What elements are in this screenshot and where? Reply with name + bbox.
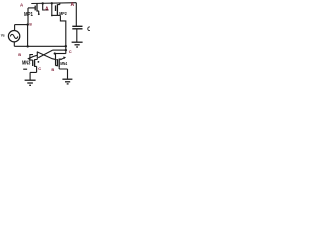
wire MN4 gate vertical [56, 54, 58, 66]
svg-text:B: B [18, 52, 21, 57]
arrowhead MN4 arrow [63, 57, 66, 60]
wire MP2 rail drop [51, 3, 53, 15]
transistor MP2 gate bar [55, 5, 57, 11]
wire MN4 drain lead [59, 58, 62, 60]
transistor MN4 channel bar [58, 59, 60, 68]
ground (middle, under MN4) [62, 79, 72, 84]
junction dot node B bottom [27, 45, 29, 47]
transistor MP1 source stub [37, 11, 39, 14]
transistor MP1 gate bar [34, 6, 36, 11]
ground (left, under MN3) [25, 80, 36, 85]
wire capacitor lower lead [76, 29, 78, 42]
junction dot node A line2 [65, 49, 67, 51]
svg-text:A: A [45, 6, 49, 12]
junction dot wire y15.4 [51, 15, 53, 17]
junction dot MP1 source [38, 13, 40, 15]
wire line2 [53, 49, 66, 51]
svg-text:A: A [71, 2, 75, 8]
wire MN3 source to ground [30, 72, 36, 80]
AC source V1 circle [8, 31, 19, 42]
wire diagonal A (cross-couple down) [37, 52, 57, 60]
dash mark under MN3 label [23, 68, 27, 70]
transistor MN4 gate bar [56, 59, 58, 66]
wire source top horizontal [15, 24, 29, 26]
circuit schematic: cross-coupled rectifier [0, 0, 90, 90]
svg-text:Vs: Vs [1, 34, 5, 38]
junction dot MN3 right [38, 61, 40, 63]
junction dot rail 1 [42, 2, 44, 4]
wire diagonal B (cross-couple up) [38, 50, 52, 58]
capacitor C1 top plate [72, 25, 82, 27]
junction dot node B top [27, 23, 29, 25]
wire L from rail dot to node A label [43, 3, 49, 10]
junction dot line3 left [54, 52, 56, 54]
transistor MP1 channel bar [36, 4, 38, 12]
svg-text:MN3: MN3 [22, 60, 31, 66]
wire MP2 staircase to node A vertical [60, 15, 65, 53]
wire right drop to capacitor [75, 3, 77, 26]
wire MN4 source [59, 67, 67, 79]
ground (right, under capacitor) [72, 42, 83, 47]
svg-text:MP2: MP2 [59, 11, 67, 16]
svg-text:C: C [87, 27, 90, 33]
wire node B horizontal [14, 45, 66, 47]
svg-text:MP1: MP1 [24, 12, 33, 18]
junction dot node A line1 [65, 45, 67, 47]
arrow near MN4 (current arrow, points right) [60, 58, 64, 60]
wire MP1 gate lead [28, 7, 35, 9]
svg-text:C: C [38, 66, 41, 71]
arrow near MN3 (current arrow, points left) [29, 55, 37, 58]
wire left gate vertical [27, 8, 29, 25]
svg-text:C: C [69, 49, 72, 54]
svg-text:A: A [20, 2, 24, 7]
transistor MP2 drain stub [57, 3, 59, 5]
wire MN3 drain vertical [35, 52, 38, 60]
wire vertical to node B [27, 25, 29, 47]
wire MN3 source [35, 66, 37, 72]
svg-text:MN4: MN4 [60, 61, 67, 66]
capacitor C1 bottom plate [72, 28, 82, 30]
wire top rail [31, 2, 76, 5]
transistor MN3 channel bar [34, 59, 36, 67]
junction dot rail 2 [51, 2, 53, 4]
arrowhead MN3 arrow [27, 57, 30, 60]
svg-text:B: B [29, 23, 32, 27]
svg-text:B: B [51, 67, 54, 72]
AC source sine [10, 34, 18, 38]
transistor MP2 channel bar [56, 4, 58, 15]
wire y15.4 [52, 14, 61, 16]
wire line3 [55, 53, 66, 55]
transistor MN3 gate bar [32, 60, 34, 66]
wire source bottom stub [13, 42, 15, 47]
wire source top stub [14, 25, 16, 31]
wire MN3 gate L [30, 55, 33, 61]
